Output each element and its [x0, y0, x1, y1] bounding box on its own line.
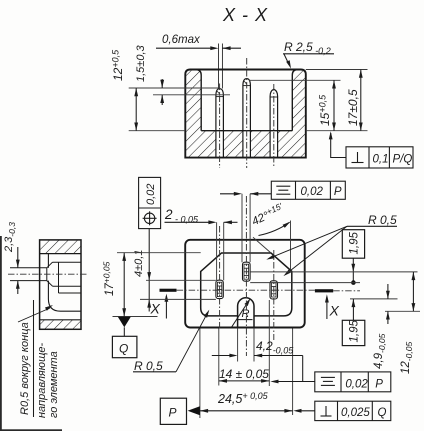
- svg-text:1,95: 1,95: [349, 320, 361, 343]
- svg-text:P: P: [334, 186, 342, 198]
- svg-text:го элемента: го элемента: [48, 351, 60, 418]
- ext cavity top left (y=252.7): [117, 252, 201, 254]
- horizontal centerline: [177, 289, 315, 291]
- pin 2 centerline: [246, 58, 248, 168]
- R0,5 leader to lower chamfer: [286, 226, 348, 274]
- FCF leader: [331, 133, 346, 158]
- svg-text:2,3-0,3: 2,3-0,3: [3, 222, 17, 253]
- ext slot1 bottom left (y=299.4): [140, 298, 216, 300]
- svg-text:1,5±0,3: 1,5±0,3: [135, 44, 147, 82]
- pin 3 centerline: [273, 84, 275, 168]
- FCF leader down / dim 4±0,1 line: [148, 229, 150, 312]
- pin 2: [243, 79, 251, 158]
- svg-text:Q: Q: [378, 407, 387, 419]
- detail outer outline: [40, 240, 81, 329]
- section arrow left: [165, 296, 167, 319]
- detail top flange (hatched): [40, 240, 81, 254]
- section arrow right: [326, 297, 328, 319]
- FCF perpendicularity 0,025 Q: [315, 401, 391, 420]
- boxed 1,95 bottom: [342, 320, 365, 345]
- ext slot2 mid right (y=271.9): [250, 271, 417, 273]
- svg-text:4,2-0,05: 4,2-0,05: [256, 339, 294, 356]
- svg-text:42°+15': 42°+15': [249, 201, 286, 228]
- cavity contour: [201, 253, 292, 316]
- FCF symmetry 0,02 P right leader: [273, 381, 315, 383]
- svg-text:0,1: 0,1: [373, 154, 389, 166]
- FCF perpendicularity 0,1 P/Q: [346, 147, 413, 168]
- guide pin channel: [10, 267, 47, 269]
- svg-text:направляюще-: направляюще-: [36, 342, 48, 418]
- svg-text:X: X: [329, 303, 340, 319]
- ext y=311.3: [385, 310, 420, 312]
- guide pin centerline: [8, 273, 88, 275]
- ext line pin1 tip (y=88): [129, 87, 220, 89]
- cavity floor line: [201, 130, 292, 132]
- ext lines below view: [218, 329, 220, 386]
- ext line housing top right (y=69.5): [306, 69, 368, 71]
- step below pin: [58, 286, 60, 293]
- section mark right bar: [315, 289, 333, 292]
- ext slot1 top left (y=280.3): [146, 279, 216, 281]
- svg-text:17±0,5: 17±0,5: [346, 89, 360, 126]
- svg-text:0,025: 0,025: [341, 407, 370, 419]
- svg-text:4±0,1: 4±0,1: [133, 250, 145, 277]
- svg-text:P: P: [375, 378, 383, 390]
- pin 1: [216, 89, 224, 158]
- svg-text:0,02: 0,02: [145, 184, 157, 205]
- dim 4,9-0,05: [387, 284, 389, 299]
- web inner edge: [47, 254, 49, 268]
- svg-text:R: R: [242, 308, 250, 320]
- slot2 width arrows / FCF leader: [220, 193, 239, 195]
- section mark left bar: [160, 289, 177, 292]
- R0,5 callout arrow: [18, 308, 50, 322]
- FCF perpendicularity 0,025 Q leader: [296, 410, 315, 412]
- svg-text:17+0,05: 17+0,05: [102, 261, 117, 296]
- svg-text:R 0,5: R 0,5: [134, 359, 163, 373]
- svg-text:R 0,5: R 0,5: [368, 213, 397, 227]
- slot centerlines vertical: [219, 226, 221, 330]
- ext line floor right (y=130.7): [306, 130, 368, 132]
- slot 3: [270, 281, 278, 299]
- svg-text:X: X: [150, 301, 161, 317]
- svg-text:14 ± 0,05: 14 ± 0,05: [219, 367, 269, 381]
- right wall inner edge: [292, 70, 297, 131]
- svg-text:P: P: [169, 406, 177, 420]
- ext line floor left: [129, 130, 186, 132]
- slot 2: [243, 262, 251, 281]
- pin channel gaps in floor (white): [216, 130, 224, 158]
- svg-text:1,95: 1,95: [349, 232, 361, 255]
- boxed 1,95 top: [342, 230, 364, 259]
- scan artifact bottom edge: [0, 429, 62, 431]
- ext line pin2 tip right (y=80.3): [249, 79, 341, 81]
- svg-text:0,02: 0,02: [345, 378, 368, 390]
- notch (cable groove): [238, 298, 254, 328]
- FCF position 0,02 vertical box: [139, 177, 161, 228]
- left wall inner edge: [196, 70, 201, 131]
- angle vertical ext: [290, 221, 292, 272]
- dim 12-0,05: [412, 272, 414, 311]
- detail bottom flange (hatched): [40, 320, 81, 330]
- slot 1: [216, 280, 223, 298]
- svg-text:12+0,5: 12+0,5: [111, 49, 126, 81]
- FCF symmetry 0,02 P right: [315, 372, 391, 392]
- FCF symmetry 0,02 P top: [271, 181, 345, 199]
- pin 1 centerline: [219, 84, 221, 169]
- svg-text:R0,5 вокруг конца: R0,5 вокруг конца: [19, 322, 31, 415]
- datum P triangle: [188, 406, 200, 415]
- svg-text:0,6max: 0,6max: [162, 34, 201, 46]
- svg-text:P/Q: P/Q: [393, 154, 413, 166]
- housing hatched body (U shape section): [185, 70, 305, 158]
- chamfer extension line: [253, 237, 271, 253]
- pin 3: [270, 89, 278, 157]
- guide pin head: [46, 268, 48, 281]
- ext cavity bottom left (y=316.5): [113, 316, 158, 318]
- ext slot2 bottom right (y=282.6): [250, 282, 360, 284]
- body outline: [185, 240, 305, 328]
- notch R label: [231, 301, 249, 329]
- svg-text:12-0,05: 12-0,05: [400, 342, 414, 374]
- ext slot3 bottom right (y=298.9): [350, 298, 398, 300]
- ext line pin1 dome base (y=94.8): [153, 94, 230, 96]
- svg-text:X - X: X - X: [222, 5, 268, 25]
- datum Q triangle: [118, 317, 131, 328]
- svg-text:15+0,5: 15+0,5: [318, 94, 333, 126]
- svg-text:0,02: 0,02: [301, 186, 324, 198]
- datum P box: [160, 398, 186, 424]
- flange inner lines: [40, 253, 81, 255]
- svg-text:4,9-0,05: 4,9-0,05: [373, 333, 387, 369]
- scan artifact left edge: [0, 236, 2, 431]
- svg-text:24,5+ 0,05: 24,5+ 0,05: [217, 391, 269, 406]
- svg-text:2 - 0,05: 2 - 0,05: [164, 207, 199, 224]
- svg-text:Q: Q: [119, 342, 128, 356]
- housing outer outline: [185, 70, 305, 158]
- datum Q box: [112, 336, 136, 357]
- R0,5 leader to upper chamfer: [269, 226, 348, 258]
